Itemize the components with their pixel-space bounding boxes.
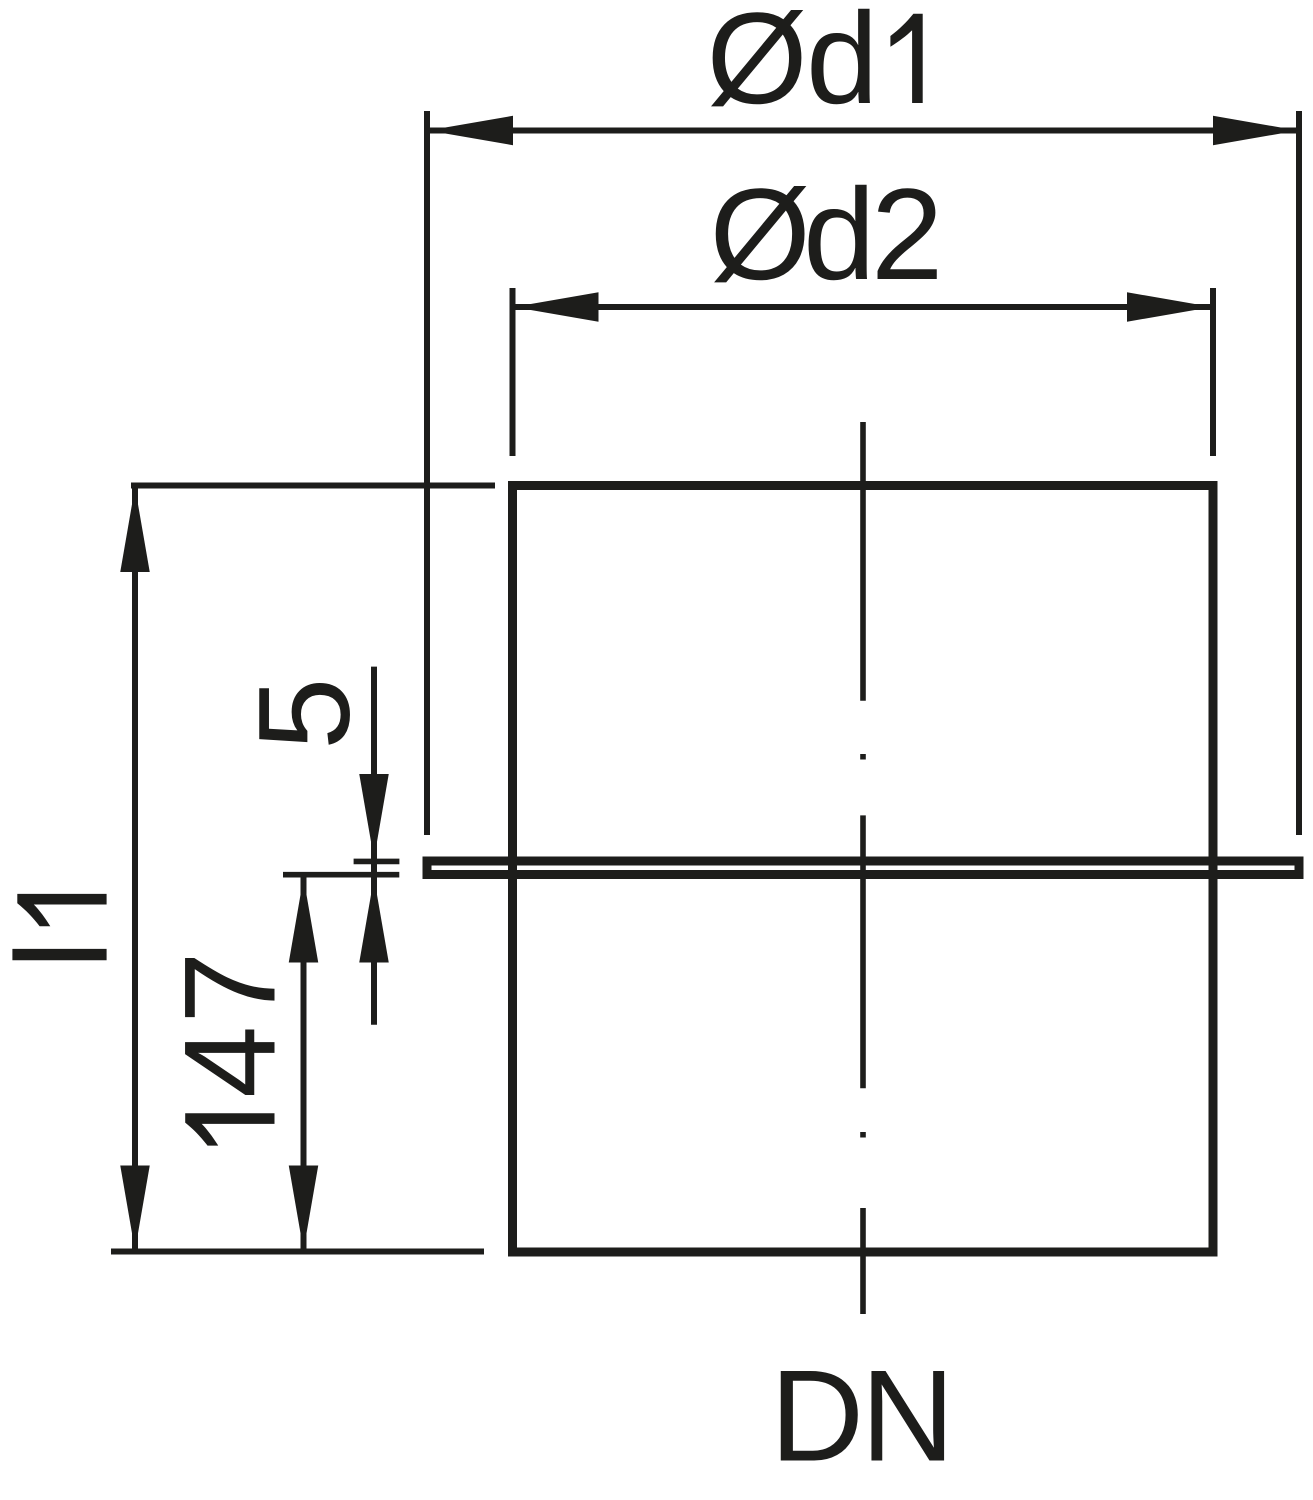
flange (thin outlined bar) [427,861,1299,875]
dimension 5: lower arrowhead (points up) [359,878,389,963]
dimension 147: bottom arrowhead [289,1166,319,1251]
dimension l1: bottom arrowhead [120,1166,150,1251]
label 147 (rotated) [157,951,303,1145]
dimension Od2: dimension line [513,304,1214,310]
dimension l1: top extension line [131,483,495,489]
main body rectangle [513,486,1214,1253]
svg-text:N: N [861,1343,955,1489]
svg-text:l: l [0,940,135,969]
dimension Od2: extension line left [510,288,516,456]
dimension 5: upper tick line [354,859,400,865]
dimension 147: top arrowhead [289,878,319,963]
dimension Od1: left arrowhead [428,116,513,146]
dimension l1: dimension line [132,486,138,1251]
label DN [770,1343,955,1489]
dimension l1: bottom extension line [111,1249,484,1255]
svg-text:2: 2 [871,161,943,307]
svg-text:d: d [803,161,875,307]
svg-text:d: d [806,0,878,131]
dimension Od2: right arrowhead [1127,292,1212,322]
dimension 5: leader line (continuous through ticks) [371,667,377,1025]
svg-text:D: D [770,1343,864,1489]
dimension 147: dimension line [301,877,307,1251]
dimension 147: top tick line [283,872,399,878]
label l1 (rotated) [0,894,135,969]
label Od2 [710,161,944,307]
svg-text:4: 4 [157,1026,303,1098]
dimension 5: upper arrowhead (points down) [359,774,389,859]
dimension Od2: left arrowhead [514,292,599,322]
svg-text:5: 5 [231,678,377,750]
dimension Od1: dimension line [427,128,1299,134]
dimension Od2: extension line right [1210,288,1216,456]
svg-text:7: 7 [157,951,303,1023]
dimension Od1: extension line right [1296,111,1302,835]
centerline DN axis (dash-dot) [860,422,866,1314]
svg-text:Ø: Ø [707,0,808,131]
dimension Od1: right arrowhead [1213,116,1298,146]
dimension l1: top arrowhead [120,487,150,572]
dimension Od1: extension line left [424,111,430,835]
label Od1 [707,0,923,131]
svg-text:Ø: Ø [710,161,811,307]
